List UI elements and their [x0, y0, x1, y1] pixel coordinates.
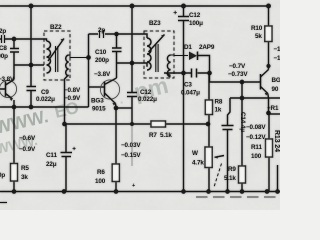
node dot (183.5,191.5) — [181, 189, 186, 194]
node dot (268.5,6) — [266, 4, 271, 9]
node dot (14,39) — [12, 37, 17, 42]
wire R5 to ground — [13, 181, 15, 192]
potentiometer dashed link — [214, 164, 222, 188]
node dot (117,34) — [114, 32, 119, 37]
node dot (132,6) — [130, 4, 135, 9]
node dot (183,73) — [181, 71, 186, 76]
wire BG3 emitter to node — [115, 104, 118, 109]
wire x89 vertical — [88, 34, 90, 107]
potentiometer W 4.7k body — [205, 147, 212, 168]
capacitor C9 0.022u — [27, 87, 37, 91]
diode D1 2AP9 — [189, 52, 210, 74]
wire faint x132 below — [131, 124, 133, 166]
wire R10 to collector — [268, 42, 270, 70]
node dot (116,108) — [114, 106, 119, 111]
wire x242 down to R9 — [241, 82, 243, 166]
potentiometer wiper arrow — [215, 156, 225, 158]
transistor BG2 (left edge, clipped) — [0, 80, 17, 102]
wire BG2 collector up — [13, 65, 15, 80]
resistor R8 1k — [205, 100, 212, 115]
wire C14 chain x226 — [228, 98, 231, 192]
node dot (268.5,62) — [266, 64, 270, 68]
wire R8 chain x209 — [208, 73, 210, 192]
wire BG3 base branch y87 — [89, 86, 105, 88]
node dot (183.5,6) — [181, 4, 186, 9]
node dot (116,191.5) — [114, 189, 119, 194]
capacitor 2p (mid) wire — [89, 34, 148, 38]
wire BG4 emitter down — [267, 94, 270, 114]
resistor R10 5k — [265, 26, 272, 42]
wire R11 to ground — [268, 157, 270, 192]
BZ2 core — [56, 46, 58, 72]
wire vertical x31 rail to y107 — [30, 6, 32, 107]
BZ2 tuning arrow — [48, 39, 64, 62]
wire x132 rail down to C12b — [131, 6, 133, 92]
BZ3 tuning arrow — [149, 35, 165, 53]
transistor BG4 (right edge, clipped) — [261, 70, 269, 96]
wire BZ3 secondary bottom — [167, 73, 171, 75]
wire C8 branch — [13, 39, 15, 65]
dash bottom-left corner — [0, 202, 7, 204]
wire x183 full vertical — [183, 6, 185, 192]
paper background — [0, 0, 280, 210]
wire -3.8V node y63 — [117, 63, 148, 67]
wire BZ2 secondary bottom down — [65, 75, 69, 124]
wire R7 row y124 — [65, 123, 211, 125]
node dot (31,107) — [29, 105, 34, 110]
node dot (132,124) — [130, 122, 134, 126]
wire C3 row y73 — [164, 72, 210, 74]
node dot (14,107) — [12, 105, 17, 110]
node dot (31,6) — [29, 4, 34, 9]
capacitor C8 200p — [10, 49, 19, 53]
node dot (226,191.5) — [225, 189, 230, 194]
node dot (242,82) — [240, 80, 245, 85]
node dot (64.5,124) — [62, 122, 67, 127]
BZ2 primary winding — [47, 41, 51, 73]
BZ3 primary winding — [147, 38, 151, 70]
wire y65 to BZ2 — [14, 64, 44, 66]
capacitor C11 22u wire — [65, 124, 67, 192]
BZ3 secondary winding — [167, 55, 170, 77]
node dot (277.5,191.5) — [275, 189, 280, 194]
dashed line under ground rail — [196, 196, 280, 198]
node dot (268.5,113) — [266, 111, 271, 116]
BZ3 core — [156, 44, 158, 72]
resistor R9 5.1k — [239, 166, 246, 183]
wire R9 to ground — [241, 183, 243, 192]
wire x116 down to R6 — [115, 108, 117, 164]
capacitor C12 0.022u plates — [127, 93, 137, 97]
wire BG3 collector up — [116, 63, 118, 78]
BZ2 secondary winding — [66, 55, 69, 76]
wire base row right transistor y82 — [210, 73, 261, 82]
wire emitter node y108 — [116, 107, 132, 109]
wire emitter node to right edge y114 — [269, 113, 281, 115]
node dot (242,191.5) — [240, 189, 245, 194]
capacitor C3 0.047u — [192, 69, 197, 78]
node dot (242,98) — [240, 96, 245, 101]
resistor R11 100 — [266, 139, 273, 157]
capacitor C10 200p — [112, 48, 122, 52]
node dot (88,58) — [86, 55, 91, 60]
wire x132 below cap to y124 — [131, 97, 133, 125]
wire BG2 emitter down — [13, 100, 15, 107]
wire BZ2 secondary top to x89 — [69, 55, 89, 58]
capacitor C11 22u plates — [61, 153, 73, 157]
node dot (14,191.5) — [12, 189, 17, 194]
transformer BZ2 dashed box — [44, 31, 70, 80]
wire right edge component x277 — [277, 165, 279, 192]
resistor R5 3k — [11, 164, 18, 182]
resistor R7 5.1k — [151, 121, 166, 127]
wire top rail — [0, 5, 268, 7]
C11 plus sign — [73, 147, 76, 150]
wire x268 rail to R10 — [268, 6, 270, 26]
wire bottom ground rail — [0, 191, 280, 193]
wire x269 to R11 — [268, 113, 270, 139]
node dot (209.5,73) — [207, 71, 212, 76]
wire emitter rail y107 — [0, 106, 89, 108]
node dot (208,124) — [206, 122, 211, 127]
wire input at y39 — [0, 39, 47, 41]
C12 plus sign — [174, 11, 177, 14]
capacitor 2p (mid) plates — [100, 30, 104, 38]
node dot (208,191.5) — [206, 189, 211, 194]
capacitor C12 100u plates — [178, 17, 189, 21]
wire R12 feed y98 — [230, 97, 280, 99]
capacitor 2p (input, left edge) — [2, 35, 5, 43]
wire R6 to ground — [115, 182, 117, 192]
capacitor C14 47u plates — [222, 126, 234, 130]
transistor BG3 9015 — [100, 78, 119, 106]
wire BZ3 secondary top to D1 — [171, 54, 189, 57]
wire x14 down to R5 — [13, 107, 15, 164]
node dot (31,65) — [29, 63, 34, 68]
node dot (64,191.5) — [62, 189, 67, 194]
node dot (132,63) — [130, 61, 135, 66]
node dot (267,191.5) — [265, 189, 270, 194]
wire C10 lead down — [116, 34, 118, 63]
resistor R6 100 — [112, 164, 119, 182]
transformer BZ3 dashed box — [144, 31, 174, 78]
